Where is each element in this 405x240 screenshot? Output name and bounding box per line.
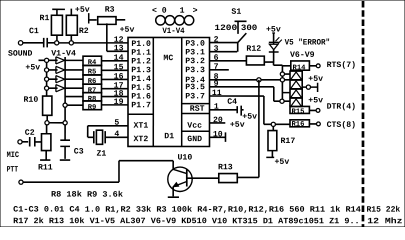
wire R3 right +5v bbox=[116, 19, 125, 21]
resistor R5 bbox=[83, 65, 102, 75]
R17 ground bar bbox=[266, 156, 274, 158]
svg-text:C4: C4 bbox=[227, 98, 237, 107]
wire node to node bbox=[59, 42, 69, 44]
node R10-R11 bbox=[45, 121, 49, 125]
node R9 tap bbox=[63, 103, 67, 107]
resistor R13 bbox=[219, 174, 238, 183]
+5v tap node bbox=[306, 85, 310, 89]
node C3 top bbox=[63, 121, 67, 125]
svg-text:>: > bbox=[193, 7, 198, 16]
capacitor C4 bbox=[236, 106, 238, 113]
svg-text:<: < bbox=[152, 7, 157, 16]
IC D1 outer box bbox=[128, 37, 210, 146]
ladder right rail bbox=[301, 70, 303, 106]
svg-text:P1.6: P1.6 bbox=[131, 93, 151, 102]
RTS terminal bbox=[316, 64, 320, 68]
+5v tap bar bbox=[317, 83, 319, 92]
svg-text:GND: GND bbox=[187, 135, 202, 144]
capacitor C1 bbox=[43, 38, 45, 48]
resistor R4 bbox=[83, 56, 102, 65]
LED indicator circle V3 bbox=[175, 16, 184, 25]
svg-text:MC: MC bbox=[163, 54, 173, 63]
stub upper to rail bbox=[285, 73, 291, 75]
wire pin 11 bbox=[210, 95, 264, 97]
ladder feed riser bbox=[281, 66, 283, 102]
svg-text:P1.3: P1.3 bbox=[131, 66, 151, 75]
LED V5 bbox=[269, 44, 278, 50]
svg-text:MIC: MIC bbox=[7, 151, 20, 160]
resistor R2 bbox=[66, 15, 77, 35]
wire R17 top bbox=[272, 126, 274, 130]
LED indicator circle V4 bbox=[184, 16, 193, 25]
LED indicator circle V2 bbox=[165, 16, 174, 25]
ground bar pin 10 bbox=[224, 132, 226, 142]
svg-text:SOUND: SOUND bbox=[8, 50, 32, 59]
svg-text:XT1: XT1 bbox=[133, 122, 148, 131]
svg-text:P3.7: P3.7 bbox=[185, 92, 205, 101]
wire node to pin 12 bbox=[73, 42, 128, 44]
svg-text:R8: R8 bbox=[88, 96, 97, 104]
svg-text:V1-V4: V1-V4 bbox=[162, 27, 184, 36]
wire PTT bbox=[23, 181, 119, 183]
SOUND input terminal bbox=[18, 41, 22, 45]
svg-text:CTS(8): CTS(8) bbox=[327, 120, 356, 130]
wire rail feed upper bbox=[282, 92, 290, 94]
wire node-node bottom bbox=[49, 122, 63, 124]
node pin8 feed bbox=[280, 78, 284, 82]
wire R14 to RTS bbox=[309, 65, 316, 67]
svg-text:C2: C2 bbox=[25, 129, 35, 138]
svg-text:R10: R10 bbox=[24, 96, 39, 105]
S1 arm bbox=[238, 33, 247, 43]
svg-text:+5v: +5v bbox=[274, 158, 289, 167]
diode V6 bbox=[290, 70, 302, 72]
wire +5v to rail bbox=[39, 59, 45, 61]
svg-text:P3.1: P3.1 bbox=[185, 48, 205, 57]
svg-text:P1.0: P1.0 bbox=[131, 40, 151, 49]
wire cathode V2 bbox=[65, 69, 83, 71]
svg-text:+5v: +5v bbox=[308, 75, 323, 84]
wire anode V2 bbox=[49, 69, 58, 71]
wire pin 17 bbox=[102, 88, 129, 90]
wire R12 to V5 bbox=[264, 61, 273, 63]
wire C2 to R11 bbox=[35, 141, 41, 143]
node ladder feed upper bbox=[280, 72, 284, 76]
wire R8 tap bbox=[65, 96, 83, 98]
svg-text:V6-V9: V6-V9 bbox=[290, 51, 315, 60]
wire R9 tap bbox=[67, 104, 83, 106]
U10 base bar bbox=[186, 169, 188, 186]
resistor R3 bbox=[98, 17, 116, 25]
wire pin 1 RST bbox=[210, 109, 238, 111]
wire cathode V3 bbox=[65, 78, 83, 80]
U10 base wire bbox=[172, 161, 174, 170]
svg-text:12 Mhz: 12 Mhz bbox=[367, 216, 402, 226]
IC divider under Vcc bbox=[182, 130, 210, 132]
CTS terminal bbox=[316, 122, 320, 126]
wire MIC to C2 bbox=[22, 141, 28, 143]
svg-text:R17: R17 bbox=[280, 137, 295, 146]
svg-text:Vcc: Vcc bbox=[187, 122, 202, 131]
svg-text:R17 2k R13 10k V1-V5 AL307 V6-: R17 2k R13 10k V1-V5 AL307 V6-V9 KD510 V… bbox=[13, 216, 360, 226]
svg-text:300: 300 bbox=[241, 24, 258, 33]
wire base to R13 bbox=[187, 177, 219, 179]
resistor R1 bbox=[51, 15, 62, 35]
wire pin 16 bbox=[102, 78, 129, 80]
wire pin 4 bbox=[105, 136, 128, 138]
svg-text:R13: R13 bbox=[218, 163, 233, 172]
left rail bbox=[46, 60, 48, 96]
node V1 anode bbox=[45, 58, 49, 62]
wire pin 19 bbox=[102, 104, 129, 106]
diode V4 left bbox=[55, 85, 57, 92]
svg-text:+5v: +5v bbox=[25, 64, 40, 73]
wire feed to R14 bbox=[282, 65, 290, 67]
svg-text:RTS(7): RTS(7) bbox=[327, 60, 356, 70]
svg-text:P1.2: P1.2 bbox=[131, 57, 151, 66]
svg-text:20: 20 bbox=[213, 116, 223, 125]
svg-text:+5v: +5v bbox=[75, 6, 90, 15]
V5 top bar +5v bbox=[272, 32, 275, 34]
resistor R8 bbox=[83, 93, 102, 101]
svg-text:V1-V4: V1-V4 bbox=[51, 50, 76, 59]
wire R13 riser bbox=[258, 80, 260, 178]
svg-text:R15: R15 bbox=[291, 108, 304, 116]
svg-text:R12: R12 bbox=[246, 45, 261, 54]
R3 +5v bar bbox=[88, 13, 90, 23]
U10 ground bar bbox=[168, 196, 179, 198]
R11 ground bar bbox=[40, 159, 50, 161]
wire pin 14 bbox=[102, 60, 129, 62]
wire pin 8 bbox=[210, 79, 291, 81]
S1 pin2-pin3 tie bbox=[237, 43, 239, 52]
C3 ground bar bbox=[60, 159, 70, 161]
svg-text:1: 1 bbox=[180, 7, 185, 16]
+5v tap wire bbox=[302, 86, 317, 88]
node R1 bottom bbox=[55, 41, 59, 45]
wire pin 13 bbox=[107, 50, 128, 52]
IC divider left bbox=[152, 37, 154, 146]
cathode rail bbox=[64, 57, 66, 121]
resistor R9 bbox=[83, 101, 102, 110]
node R2 bottom bbox=[69, 41, 73, 45]
wire pin 7 bbox=[210, 69, 229, 71]
wire cathode V1 bbox=[65, 59, 83, 61]
wire R10 bottom bbox=[46, 115, 48, 120]
diode V1 left bbox=[55, 57, 57, 64]
svg-text:P3.3: P3.3 bbox=[185, 66, 205, 75]
diode V3 left bbox=[55, 76, 57, 83]
V5 LED arrows bbox=[276, 37, 280, 41]
U10 emitter wire bbox=[172, 187, 174, 197]
svg-text:P1.4: P1.4 bbox=[131, 75, 151, 84]
svg-text:+5v: +5v bbox=[230, 121, 245, 130]
svg-text:P3.5: P3.5 bbox=[185, 83, 205, 92]
svg-text:R16: R16 bbox=[291, 121, 304, 129]
diode V9 bbox=[290, 97, 302, 99]
transistor U10 circle bbox=[168, 167, 192, 191]
IC divider under P1.7 bbox=[128, 113, 153, 115]
wire pin 18 bbox=[102, 96, 129, 98]
node V3 anode bbox=[45, 77, 49, 81]
svg-text:P1.5: P1.5 bbox=[131, 84, 151, 93]
S1 pole bbox=[235, 20, 247, 22]
svg-text:P3.0: P3.0 bbox=[185, 40, 205, 49]
wire pin 6 bbox=[210, 60, 247, 62]
svg-text:XT2: XT2 bbox=[133, 135, 148, 144]
wire R16 to CTS bbox=[309, 123, 316, 125]
capacitor C2 bbox=[29, 137, 31, 147]
svg-text:R1: R1 bbox=[40, 14, 50, 23]
svg-text:RST: RST bbox=[190, 105, 205, 114]
node R17 top bbox=[271, 122, 275, 126]
wire R15 to DTR bbox=[309, 109, 316, 111]
wire anode V3 bbox=[49, 78, 58, 80]
svg-text:+5v: +5v bbox=[308, 96, 323, 105]
capacitor C3 bbox=[60, 139, 70, 141]
svg-text:C1: C1 bbox=[29, 27, 39, 36]
wire R17 bottom bbox=[271, 151, 273, 158]
diode V2 left bbox=[55, 66, 57, 73]
LED indicator circle V1 bbox=[156, 16, 165, 25]
wire R13 right bbox=[237, 176, 259, 178]
resistor R17 bbox=[268, 131, 277, 151]
wire SOUND to C1 bbox=[23, 42, 43, 44]
svg-text:1200: 1200 bbox=[214, 24, 237, 33]
MIC terminal bbox=[18, 140, 22, 144]
node V2 anode bbox=[45, 68, 49, 72]
diode V8 bbox=[290, 88, 302, 90]
svg-text:V5 "ERROR": V5 "ERROR" bbox=[285, 37, 331, 47]
DTR terminal bbox=[316, 109, 320, 113]
wire pin 20 bbox=[209, 122, 225, 124]
svg-text:DTR(4): DTR(4) bbox=[327, 102, 356, 112]
wire pin 15 bbox=[102, 69, 129, 71]
resistor R16 bbox=[290, 120, 309, 127]
ladder left rail bbox=[289, 70, 291, 106]
svg-text:0: 0 bbox=[162, 7, 167, 16]
svg-text:C3: C3 bbox=[74, 147, 84, 156]
wire pin 9 bbox=[210, 86, 274, 88]
resistor R14 bbox=[291, 61, 310, 70]
svg-text:R3: R3 bbox=[105, 6, 115, 15]
svg-text:Z1: Z1 bbox=[96, 150, 106, 159]
wire pin 3 bbox=[210, 51, 238, 53]
svg-text:R2: R2 bbox=[79, 27, 89, 36]
resistor R7 bbox=[83, 84, 102, 93]
svg-text:P3.2: P3.2 bbox=[185, 57, 205, 66]
wire anode V1 bbox=[49, 59, 58, 61]
IC divider under P3.7 bbox=[182, 103, 210, 105]
node V4 anode bbox=[45, 86, 49, 90]
resistor R15 bbox=[290, 106, 309, 113]
IC divider under RST bbox=[182, 112, 210, 114]
wire R3 left bbox=[89, 19, 96, 21]
crystal Z1 bbox=[93, 131, 95, 143]
wire pin 10 bbox=[209, 136, 225, 138]
wire anode V4 bbox=[49, 87, 58, 89]
svg-text:R9: R9 bbox=[88, 104, 97, 112]
svg-text:P1.7: P1.7 bbox=[131, 101, 151, 110]
resistor R12 bbox=[246, 56, 264, 65]
svg-text:D1: D1 bbox=[164, 132, 174, 141]
svg-text:P1.1: P1.1 bbox=[131, 49, 151, 58]
PTT terminal bbox=[19, 180, 23, 184]
svg-text:C1-C3 0.01 C4 1.0 R1,R2 33k R3: C1-C3 0.01 C4 1.0 R1,R2 33k R3 100k R4-R… bbox=[13, 205, 361, 215]
svg-text:S1: S1 bbox=[231, 8, 241, 17]
wire C3 top bbox=[64, 125, 66, 140]
svg-text:U10: U10 bbox=[177, 153, 192, 162]
IC divider right bbox=[181, 37, 183, 146]
wire R3 bottom to pin 13 bbox=[106, 23, 108, 51]
svg-text:+5v: +5v bbox=[120, 26, 135, 35]
wire pin9 route bbox=[273, 87, 275, 101]
wire R11 top bbox=[46, 125, 48, 134]
resistor R10 bbox=[43, 96, 52, 115]
svg-text:R11: R11 bbox=[38, 164, 53, 173]
node ladder row3 bbox=[280, 99, 284, 103]
U10 emitter bbox=[174, 181, 187, 186]
diode V7 bbox=[290, 79, 302, 81]
wire pin 5 bbox=[88, 125, 128, 127]
wire R11 gnd bbox=[45, 151, 47, 160]
svg-text:R7: R7 bbox=[88, 87, 97, 95]
wire cathode V4 bbox=[65, 87, 83, 89]
wire C1 to node bbox=[48, 42, 55, 44]
wire pin 2 bbox=[210, 42, 238, 44]
svg-text:PTT: PTT bbox=[7, 165, 19, 174]
svg-text:R8 18k R9 3.6k: R8 18k R9 3.6k bbox=[51, 190, 123, 200]
U10 collector bbox=[173, 169, 187, 173]
wire node to R16 bbox=[275, 123, 290, 125]
node R13 tap bbox=[257, 78, 261, 82]
svg-text:R15 22k: R15 22k bbox=[366, 205, 400, 215]
resistor R6 bbox=[83, 75, 102, 84]
wire C4 +5v bbox=[242, 109, 244, 111]
resistor R11 bbox=[41, 134, 50, 151]
dashed separator line bbox=[362, 1, 365, 227]
wire pin11 route bbox=[263, 96, 265, 124]
